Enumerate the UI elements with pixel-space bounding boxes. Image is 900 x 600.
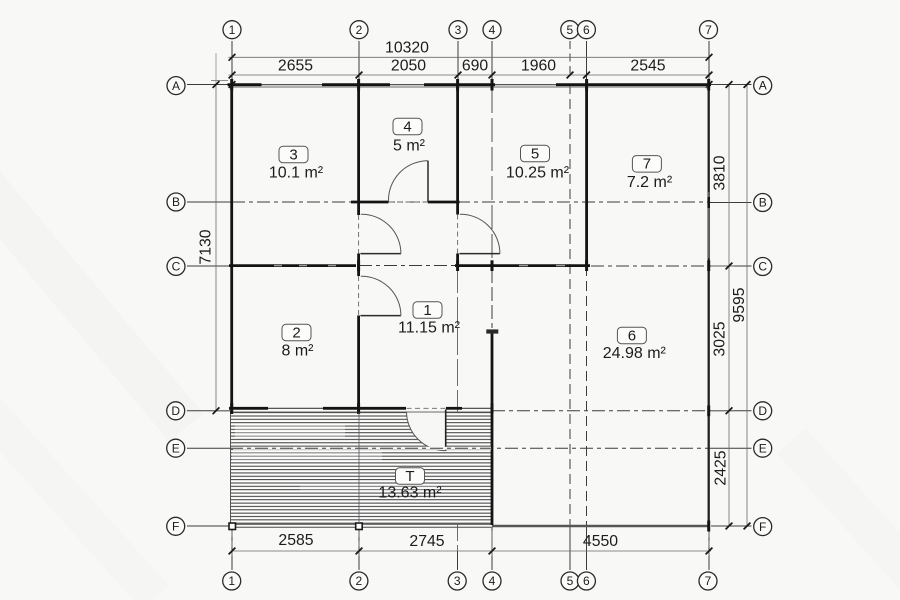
post F1: [229, 523, 236, 530]
wall B segment east of door4: [428, 201, 460, 204]
circle col 1 bottom: [223, 572, 241, 590]
svg-text:24.98 m²: 24.98 m²: [603, 345, 667, 362]
grid row A left lead: [187, 84, 230, 86]
ticks top overall: [229, 54, 236, 61]
svg-text:7: 7: [705, 23, 712, 37]
dim line left 7130: [215, 85, 217, 412]
grid col 2 line over hatch: [358, 412, 360, 523]
grid col 4 dashed A to C: [491, 89, 493, 262]
wall grid2 C-D stubs (door 2 opening): [357, 266, 360, 276]
svg-text:7: 7: [643, 156, 651, 173]
grid row E white band over hatch: [233, 447, 491, 450]
svg-text:4: 4: [489, 574, 496, 588]
svg-text:C: C: [172, 260, 181, 274]
wall C west segment: [229, 264, 356, 267]
svg-text:B: B: [759, 196, 767, 210]
svg-text:3: 3: [454, 574, 461, 588]
circle row C left: [167, 257, 185, 275]
wall grid2 B-C stubs (door 1 opening): [357, 202, 360, 215]
junction tick right wall at B: [707, 197, 710, 208]
svg-text:E: E: [759, 441, 767, 455]
svg-text:2745: 2745: [409, 533, 444, 550]
svg-text:7.2 m²: 7.2 m²: [627, 174, 673, 191]
grid row D dash-dot: [187, 410, 230, 412]
svg-text:2425: 2425: [713, 450, 730, 485]
svg-text:10.1 m²: 10.1 m²: [269, 165, 324, 182]
grid col 1 stem bottom: [231, 528, 233, 570]
svg-text:13.63 m²: 13.63 m²: [378, 485, 442, 502]
svg-text:E: E: [172, 441, 180, 455]
extension lines right C D: [711, 265, 734, 267]
grid col 3 stem top: [457, 41, 459, 84]
terrace label box: [396, 468, 425, 485]
svg-text:9595: 9595: [731, 287, 748, 322]
wall F right (room 6 south): [492, 525, 710, 527]
door room2: arc: [361, 276, 401, 315]
svg-text:T: T: [405, 468, 414, 485]
door room4: leaf: [427, 161, 429, 202]
grid row E dash-dot: [187, 447, 230, 449]
svg-text:A: A: [172, 79, 180, 93]
dashed door-opening line wall B: [389, 201, 429, 203]
circle col 7 bottom: [699, 572, 717, 590]
dashed door-opening line grid3 B-C: [457, 215, 459, 254]
svg-text:2: 2: [292, 324, 300, 341]
wall F terrace double line: [229, 523, 493, 525]
svg-text:5 m²: 5 m²: [393, 138, 426, 155]
ticks right dim segments: [726, 81, 733, 88]
svg-text:5: 5: [566, 23, 573, 37]
svg-text:3: 3: [455, 23, 462, 37]
dim line right segments: [728, 85, 730, 527]
grid col 4 dashed C to post: [491, 269, 493, 328]
svg-text:10.25 m²: 10.25 m²: [506, 165, 570, 182]
svg-text:C: C: [758, 260, 767, 274]
room 4 label box: [393, 118, 422, 135]
wall grid3 A-B: [456, 84, 459, 203]
room 6 label box: [617, 327, 646, 344]
svg-text:3: 3: [289, 146, 297, 163]
svg-text:6: 6: [583, 574, 590, 588]
room 7 label box: [632, 156, 661, 173]
scan streak bottom right: [777, 428, 900, 600]
grid row E dash-dot over hatch: [230, 447, 492, 449]
svg-text:7130: 7130: [198, 229, 215, 264]
wall A window thin segments: [262, 84, 557, 86]
dashed door-opening line wall D: [407, 407, 446, 409]
svg-text:2655: 2655: [278, 58, 313, 75]
ticks left dim: [213, 81, 220, 88]
svg-text:4: 4: [403, 118, 411, 135]
circle col 2 top: [350, 21, 368, 39]
svg-text:11.15 m²: 11.15 m²: [398, 320, 461, 337]
grid col 2 stem bottom: [358, 528, 360, 570]
ticks wall A corners: [229, 81, 236, 88]
extension lines bottom: [231, 531, 233, 556]
circle row A left: [167, 77, 185, 95]
terrace door white swing area: [407, 412, 446, 451]
circle row B right: [754, 194, 772, 212]
svg-text:F: F: [759, 520, 766, 534]
circle row D right: [754, 402, 772, 420]
room 2 label box: [282, 324, 311, 341]
wall grid6 A-C: [585, 84, 588, 267]
circle col 3 top: [449, 21, 467, 39]
circle row A right: [754, 77, 772, 95]
svg-text:5: 5: [567, 574, 574, 588]
door terrace: arc: [407, 412, 446, 451]
extension line left A corner: [211, 79, 228, 81]
ticks bottom dim: [229, 548, 236, 555]
dim line right overall 9595: [746, 85, 748, 527]
wall D thin face line: [230, 411, 492, 413]
wall C west gray gaps: [274, 265, 336, 267]
circle col 5 bottom: [561, 572, 579, 590]
right wall grid7 A-F: [708, 84, 710, 527]
extension line left D: [211, 410, 230, 412]
wall B segment west of door4: [351, 201, 389, 204]
circle col 5 top: [561, 21, 579, 39]
door room2: leaf: [360, 315, 401, 317]
dashed door-opening line grid2 C-D: [358, 276, 360, 316]
wall D thick segments: [229, 407, 462, 410]
svg-text:3810: 3810: [712, 155, 729, 190]
circle row C right: [754, 258, 772, 276]
circle row F right: [754, 518, 772, 536]
ticks right dim overall: [744, 81, 751, 88]
svg-text:2545: 2545: [630, 58, 665, 75]
circle row F left: [167, 517, 185, 535]
svg-text:2: 2: [356, 23, 363, 37]
svg-text:3025: 3025: [712, 321, 729, 356]
wall C east segment: [455, 264, 590, 267]
grid row F left lead: [187, 525, 230, 527]
grid row C dash-dot: [187, 265, 232, 267]
circle col 2 bottom: [350, 572, 368, 590]
svg-text:F: F: [172, 520, 179, 534]
grid col 5 dashed full: [569, 41, 571, 74]
svg-text:D: D: [758, 404, 767, 418]
scan streak left margin: [0, 161, 203, 442]
scan streak lower left: [0, 392, 169, 600]
door hall-right: leaf: [459, 253, 500, 255]
svg-text:2585: 2585: [278, 532, 313, 549]
room 1 label box: [413, 302, 442, 319]
door room4: arc: [388, 161, 428, 202]
circle col 4 top: [483, 21, 501, 39]
wall grid3 B-C stubs (door opening): [456, 202, 459, 215]
grid row B dash-dot: [187, 201, 232, 203]
dim line top segments: [229, 74, 711, 76]
circle col 6 top: [577, 21, 595, 39]
grid col 3 stem bottom: [457, 551, 459, 570]
circle col 1 top: [223, 21, 241, 39]
grid col 3 dashed through plan: [457, 266, 459, 551]
door hall-left: arc: [361, 214, 401, 253]
post F2: [356, 523, 363, 530]
circle row D left: [167, 402, 185, 420]
junction ticks on wall D: [232, 403, 709, 416]
room 3 label box: [279, 146, 308, 163]
grid col 6 dashed below C: [586, 41, 588, 84]
hatch fade streaks: [235, 424, 345, 438]
dim line bottom: [232, 550, 711, 552]
post at wall grid4 top: [486, 329, 498, 333]
circle row E right: [754, 439, 772, 457]
svg-text:1: 1: [423, 302, 431, 319]
dashed door-opening line grid2 B-C: [358, 215, 360, 254]
room 5 label box: [521, 145, 550, 162]
wall A thin face line: [230, 86, 710, 88]
left wall grid1 A-D: [230, 84, 233, 412]
right wall window lighter segment: [708, 192, 710, 258]
grid row F right lead: [711, 525, 752, 527]
circle col 6 bottom: [577, 572, 595, 590]
door hall-left: leaf: [360, 253, 401, 255]
junction tick right wall at F: [707, 521, 710, 532]
terrace hatch: [231, 412, 493, 525]
wall D window thin segments: [268, 407, 492, 409]
svg-text:2050: 2050: [391, 58, 426, 75]
terrace left edge: [230, 411, 232, 524]
grid col 4 stem top: [491, 41, 493, 84]
door terrace: leaf: [445, 410, 447, 451]
ticks top segments: [229, 72, 236, 79]
svg-text:4550: 4550: [583, 533, 618, 550]
grid col 7 stem bottom: [708, 528, 710, 570]
wall C east gray gaps: [519, 265, 565, 267]
circle col 3 bottom: [448, 572, 466, 590]
circle row B left: [167, 193, 185, 211]
svg-text:6: 6: [628, 327, 636, 344]
svg-text:690: 690: [462, 58, 489, 75]
grid col 7 stem top: [708, 41, 710, 84]
svg-text:10320: 10320: [385, 39, 429, 56]
junction ticks on wall C: [359, 260, 709, 271]
wall grid4 post-F: [491, 334, 494, 526]
svg-text:1: 1: [228, 574, 235, 588]
grid col 4 stem bottom: [491, 528, 493, 570]
svg-text:A: A: [759, 79, 767, 93]
circle col 4 bottom: [483, 572, 501, 590]
circle row E left: [167, 439, 185, 457]
dim line overall 10320: [229, 56, 711, 58]
svg-text:5: 5: [531, 145, 539, 162]
svg-text:1: 1: [229, 23, 236, 37]
svg-text:8 m²: 8 m²: [282, 343, 315, 360]
door hall-right: arc: [460, 214, 500, 253]
svg-text:4: 4: [489, 23, 496, 37]
junction ticks on wall A: [232, 79, 709, 91]
grid col 2 stem top: [358, 41, 360, 84]
circle col 7 top: [700, 21, 718, 39]
svg-text:6: 6: [583, 23, 590, 37]
wall grid2 A-B: [357, 84, 360, 203]
svg-text:7: 7: [705, 574, 712, 588]
svg-text:D: D: [171, 404, 180, 418]
grid row A right lead: [711, 84, 752, 86]
svg-text:B: B: [172, 195, 180, 209]
svg-text:1960: 1960: [521, 58, 556, 75]
svg-text:2: 2: [356, 574, 363, 588]
grid col 1 stem top: [231, 41, 233, 84]
wall A thick segments: [228, 83, 712, 86]
